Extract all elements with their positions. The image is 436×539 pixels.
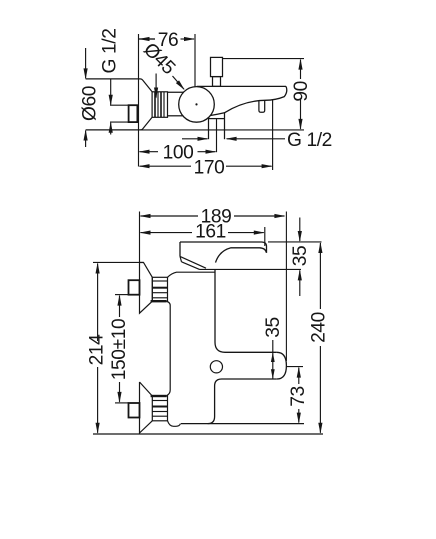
spout band bottom and lower column — [208, 379, 277, 424]
161 right extension down to handle corner — [264, 227, 266, 246]
connector from bottom nut to body base — [168, 421, 181, 427]
under-body pipe centerline / ext for 100 — [216, 119, 218, 153]
svg-text:161: 161 — [195, 222, 226, 243]
knurled nut G1/2 (top view) — [152, 92, 167, 118]
dim 76 line — [139, 34, 196, 87]
under-body pipe right edge — [224, 113, 226, 139]
svg-text:G 1/2: G 1/2 — [100, 29, 121, 74]
handle left wedge — [180, 256, 206, 269]
escutcheon flange Ø60 bottom edge + baseline ext for 90 — [86, 117, 153, 130]
baseline y=129.9 continuing right (ext line for 90) — [140, 129, 304, 131]
Ø45 leader arrow — [173, 76, 185, 89]
right extension + body right edge x=286.4 — [285, 212, 287, 362]
left G 1/2 label leader — [155, 74, 157, 98]
supply pipe square at wall (top view) — [129, 105, 138, 122]
dim 35 (top right) — [268, 218, 322, 297]
svg-text:35: 35 — [263, 317, 284, 338]
dim 240 — [319, 243, 321, 433]
svg-text:214: 214 — [87, 334, 108, 366]
dim 161 — [141, 227, 265, 246]
dim 189 — [141, 215, 285, 217]
spout tip and under-curve — [210, 86, 286, 115]
svg-text:240: 240 — [309, 312, 330, 343]
svg-text:35: 35 — [290, 246, 311, 267]
dim Ø60 arrows — [85, 48, 87, 147]
center dot of ball — [195, 103, 197, 105]
escutcheon plate line under handle — [168, 272, 215, 277]
bottom escutcheon (front view) — [140, 382, 153, 434]
svg-text:Ø60: Ø60 — [80, 86, 101, 121]
bottom baseline ext (214/240) — [93, 433, 323, 435]
right G 1/2 leader arrows — [182, 138, 285, 140]
top union nut — [152, 277, 167, 301]
body tube right edge between unions — [167, 302, 170, 396]
spout rounded cap — [277, 352, 287, 379]
svg-text:G 1/2: G 1/2 — [287, 130, 332, 151]
svg-text:150±10: 150±10 — [109, 319, 130, 381]
supply pipe dim arrows (G 1/2) — [110, 79, 128, 134]
svg-text:100: 100 — [163, 143, 194, 164]
dim 100 — [140, 151, 216, 153]
lever handle stub (top) — [211, 57, 223, 76]
dim 90 — [223, 59, 305, 129]
bottom union nut — [152, 396, 167, 421]
outlet slot under spout — [259, 100, 265, 112]
svg-text:73: 73 — [288, 386, 309, 407]
body bottom edge + ext for 73 — [181, 423, 304, 425]
lever stem — [213, 77, 221, 87]
dim 214 — [93, 262, 144, 432]
dim 150±10 — [115, 295, 129, 403]
aerator circle — [210, 361, 222, 373]
thick thread line above bottom nut — [151, 395, 167, 397]
dim 73 — [286, 367, 303, 423]
wall line / shared extension line for 76,100,170 — [138, 34, 140, 167]
left extension line (189/161) — [139, 212, 141, 263]
handle lever underside — [216, 248, 267, 263]
svg-text:90: 90 — [291, 81, 312, 102]
handle left edge — [179, 242, 181, 256]
top escutcheon (front view) — [140, 263, 153, 314]
thick thread line under top nut — [151, 300, 167, 302]
escutcheon flange Ø60 top edge — [86, 79, 153, 92]
body top edge + ext for 35 — [200, 268, 302, 270]
supply pipe squares (front view) — [129, 280, 140, 295]
body outline left / spout band / bottom — [215, 269, 277, 352]
handle lever (front view) outer profile — [180, 242, 267, 253]
body ball Ø45 — [179, 87, 215, 123]
neck between nut and body — [168, 91, 184, 93]
dim 170 — [140, 100, 273, 170]
dim 35 (middle, spout) — [271, 340, 275, 379]
spout top edge — [197, 85, 286, 87]
dim 170 right extension — [272, 100, 274, 170]
dim 76 right extension to ball center — [194, 34, 196, 87]
under-body pipe left edge — [208, 118, 210, 140]
svg-text:170: 170 — [194, 157, 225, 178]
under-body step — [209, 118, 225, 120]
